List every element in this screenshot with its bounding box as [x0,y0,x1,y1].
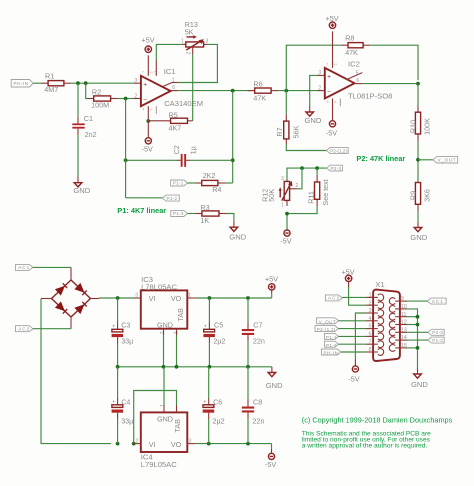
pin stub IC3 GND [163,329,165,335]
svg-text:4M7: 4M7 [44,85,58,94]
pin stub IC3 VI [133,297,141,299]
svg-text:6: 6 [369,332,372,338]
svg-text:100M: 100M [91,101,109,110]
svg-text:PH-IN: PH-IN [14,81,29,86]
svg-text:R1: R1 [45,72,54,81]
svg-text:PH-IN: PH-IN [324,351,339,356]
X1 pin 4 [366,316,384,324]
IC1 V- pin column [147,106,149,121]
svg-text:-5V: -5V [265,460,276,469]
wire inverting feedback column [125,99,127,198]
wire C1 column [77,83,79,117]
ground under R3 [229,227,246,241]
IC4 TAB bracket to VI rail [134,391,177,444]
svg-text:V_OUT: V_OUT [438,158,456,163]
wire IC2 output to R10 column [362,83,418,85]
svg-text:GND: GND [157,320,173,329]
wire R13 pin3 feedback to IC1 pin1 [178,44,217,82]
flag PH-IN [11,80,33,88]
svg-text:P2: 47K linear: P2: 47K linear [356,154,405,163]
flag PH-IN (X1) [321,349,341,356]
svg-text:−: − [327,89,331,96]
X1 pin 5 [366,324,384,332]
svg-text:R3: R3 [200,203,209,212]
IC2 pin1 stub bottom [339,99,341,107]
IC2 pin5 stub on hypotenuse [347,75,357,79]
wire X1 pin10 gnd bus [407,309,418,369]
wire AC2 to bridge bottom [33,328,71,330]
svg-text:5: 5 [356,70,359,76]
svg-text:IC2: IC2 [348,60,360,69]
wire R4 to feedback column [225,182,233,184]
svg-text:R2: R2 [92,87,101,96]
flag P1-1 [171,180,188,186]
svg-text:VI: VI [149,294,156,303]
pin stub IC4 VO [187,443,195,445]
node C4 bottom [116,442,120,446]
svg-text:1: 1 [188,292,191,298]
svg-text:-5V: -5V [280,237,291,246]
svg-text:33µ: 33µ [121,336,133,345]
svg-text:14: 14 [401,335,407,341]
X1 pin 11 [389,312,407,320]
svg-text:R11: R11 [307,191,316,204]
svg-text:P2-(1,2): P2-(1,2) [330,148,347,153]
supply -5V (rail) [265,444,276,470]
pin stub IC4 VI [134,443,141,445]
svg-text:2µ2: 2µ2 [213,336,225,345]
svg-text:P1-3: P1-3 [173,211,184,216]
svg-text:AC2: AC2 [328,296,339,301]
svg-text:33µ: 33µ [121,416,133,425]
svg-text:-5V: -5V [348,374,359,383]
wire node B down to R2 [86,83,87,98]
svg-text:v+: v+ [334,63,338,67]
svg-text:P1-1: P1-1 [326,335,337,340]
svg-text:V_OUT: V_OUT [319,320,336,325]
regulator IC3 L78L05AC [135,275,191,334]
X1 pin 14 [389,335,407,343]
ground under R9 [410,228,427,243]
svg-text:C1: C1 [84,114,93,123]
wire C2 row [126,159,177,161]
capacitor C3 33u [112,298,134,367]
svg-text:P1-1: P1-1 [173,181,184,186]
ground under X1 [411,369,428,390]
wire P2-(1,2) to X1 pin5 [339,328,367,330]
svg-text:v-: v- [334,100,337,104]
svg-text:3: 3 [135,292,138,298]
op-amp IC2 TL081P-SO8 [318,60,392,101]
supply -5V (X1) [348,366,359,384]
resistor R9 3K6 [409,181,432,211]
wire P1-1 to X1 pin6 [339,335,367,337]
supply +5V (X1) [342,267,355,281]
svg-text:9: 9 [401,296,404,302]
X1 pin 10 [389,304,407,312]
pin stub IC2 pin3 [317,74,325,76]
svg-text:5K: 5K [185,27,194,36]
flag AC1 [16,264,33,270]
svg-text:+5V: +5V [342,267,355,276]
node dot C2 left [124,158,128,162]
wire R10 to V OUT node [417,141,419,181]
flag P1-2 [162,195,179,201]
svg-text:3K6: 3K6 [423,189,432,202]
svg-text:P1-2: P1-2 [167,196,178,201]
svg-text:VI: VI [149,440,156,449]
wire X1 pin13 to P2-3 [407,331,428,333]
node dot bracket/VI [132,442,136,446]
IC2 V- pin column [332,99,334,121]
svg-text:GND: GND [73,186,90,195]
IC2 output pin6 [355,83,363,85]
wire P1-2 to X1 pin7 [339,343,367,345]
connector X1 body [373,280,400,361]
wire feedback column down [232,91,234,183]
node C3 top [116,296,120,300]
wire R2 to IC1 pin2 [118,98,134,100]
svg-text:1: 1 [369,293,372,299]
capacitor C8 22n [242,367,265,444]
supply +5V (IC1) [142,36,155,53]
wire R1 to node A [71,82,133,84]
flag P1-2 (X1) [325,341,339,348]
svg-text:TAB: TAB [176,308,185,322]
svg-text:R10: R10 [409,120,418,133]
svg-text:R7: R7 [275,127,284,136]
flag P1-1 (X1) [325,333,339,340]
svg-text:AC1: AC1 [18,265,29,270]
svg-text:GND: GND [410,233,427,242]
X1 pin 9 [389,296,407,304]
svg-text:12: 12 [401,320,407,326]
wire R9 to GND [417,211,419,222]
flag P1-3 [171,210,188,216]
wire R13 pin1 to IC1 pin5 [156,44,182,60]
svg-text:+5V: +5V [326,14,339,23]
svg-text:50K: 50K [267,189,276,202]
svg-text:GND: GND [157,415,173,424]
op-amp IC1 CA3140EM [135,67,204,108]
capacitor C1 2n2 [72,114,96,139]
svg-text:5: 5 [155,71,157,75]
pin stub IC3 TAB [176,329,178,335]
wire output row to IC2 [178,90,254,92]
svg-text:7: 7 [369,339,372,345]
svg-text:GND: GND [305,116,322,125]
wire V- to -5V [147,121,149,138]
trim pot R12 50K [261,176,299,208]
IC1 pin5 stub bottom [155,106,157,114]
wire R13 wiper pin2 down to R5 [192,55,194,121]
IC1 output pin6 [171,90,179,92]
wire V OUT to X1 pin4 [339,320,367,322]
svg-text:+5V: +5V [142,36,155,45]
svg-text:P1-3: P1-3 [432,338,443,343]
svg-text:+: + [112,399,115,404]
node dot bottom rail [285,212,289,216]
pin stub IC1 pin2 [133,98,141,100]
svg-text:7: 7 [326,63,328,67]
node output IC2 [416,82,420,86]
svg-text:VO: VO [171,440,182,449]
bridge rectifier B1 [41,267,99,328]
svg-text:P1: 4K7 linear: P1: 4K7 linear [117,206,166,215]
wire AC1 to bridge top [33,266,71,268]
resistor R4 2K2 [188,171,226,194]
wire R3 to GND [226,214,234,222]
flag AC2 (X1) [325,295,342,301]
svg-text:+: + [143,81,147,88]
svg-text:v-: v- [150,108,153,112]
ground under C1 [73,183,90,195]
svg-text:P1-2: P1-2 [326,343,337,348]
wire AC2 to X1 pin1 [342,296,366,298]
supply -5V (IC2) [326,121,337,138]
capacitor C5 2u2 [203,298,225,367]
wire IC3 GND/TAB to gnd rail [163,335,165,367]
wire C6 column from gnd rail [208,367,210,399]
svg-text:X1: X1 [375,280,384,289]
X1 pin 8 [366,347,384,355]
node dot feedback tap on pin2 wire [124,97,128,101]
svg-text:+: + [112,324,115,329]
capacitor C6 2u2 [203,398,225,444]
X1 pin 7 [366,339,384,347]
node inverting input IC2 [284,89,288,93]
node V OUT [416,158,420,162]
svg-text:VO: VO [171,294,182,303]
svg-text:7: 7 [142,71,144,75]
svg-text:R5: R5 [169,110,178,119]
supply +5V (rail) [265,275,278,299]
svg-text:R9: R9 [409,191,418,200]
capacitor C7 22n [242,298,265,367]
supply +5V (IC2) [326,14,339,28]
svg-text:100K: 100K [423,118,432,135]
svg-text:2: 2 [135,93,138,99]
flag P2-(1,2) (X1) [315,326,339,333]
diode D-TL [55,286,65,296]
pin stub IC1 pin3 [133,82,141,84]
pin stub IC3 VO [187,297,195,299]
svg-text:8: 8 [369,347,372,353]
svg-text:1µ: 1µ [189,146,198,154]
svg-text:AC2: AC2 [18,327,29,332]
flag V OUT (X1) [317,318,339,325]
svg-text:22n: 22n [253,336,265,345]
svg-text:P2-3: P2-3 [331,166,342,171]
svg-text:See text: See text [321,179,330,205]
capacitor C2 1u [172,145,198,167]
svg-text:1K: 1K [200,216,209,225]
svg-text:1: 1 [160,404,166,407]
flag P2-3 [327,165,343,171]
diode D-BR [74,304,84,314]
IC1 pin1 stub on hypotenuse [163,83,173,87]
svg-text:TL081P-SO8: TL081P-SO8 [348,92,392,101]
svg-text:+: + [204,324,207,329]
ground rail (mid) [118,366,272,368]
wire R7 column top [285,91,287,115]
wire bridge minus to -rail [41,299,111,444]
wire R8 to output column [370,45,418,80]
wire VO rail to -5V [195,443,272,445]
wire feedback up to R8 row [286,45,341,90]
svg-text:C2: C2 [172,145,181,154]
svg-text:P2-(1,2): P2-(1,2) [317,327,336,332]
node B dot (R2 tap) [84,81,88,85]
regulator IC4 L79L05AC [136,404,192,469]
resistor R7 56K [275,114,301,144]
svg-text:4K7: 4K7 [169,123,182,132]
wire column to R10 [417,84,419,106]
svg-text:C8: C8 [253,398,262,407]
node C8 bottom [246,442,250,446]
svg-text:2: 2 [185,52,191,55]
svg-text:P2-3: P2-3 [432,330,443,335]
svg-text:−: − [143,97,147,104]
wire VO rail to +5V [195,297,272,299]
svg-text:CA3140EM: CA3140EM [164,99,203,108]
resistor R2 100M [87,87,118,109]
svg-text:+: + [203,399,206,404]
svg-text:10: 10 [401,304,407,310]
wire PH-IN to R1 [33,82,41,84]
wire pin15 to bus [407,347,418,349]
svg-text:4: 4 [143,108,145,112]
wire R12 wiper to top row [290,188,298,190]
svg-text:2n2: 2n2 [85,130,97,139]
flag AC1 (X1 right) [427,298,446,304]
wire P2-3 row [287,168,327,180]
X1 pin 2 [366,300,384,308]
node C6 bottom [207,442,211,446]
svg-text:GND: GND [266,381,283,390]
node dot V- junction [146,119,150,123]
node dots on ground rail [116,365,120,369]
node output/feedback [231,89,235,93]
svg-text:6: 6 [172,85,175,91]
svg-text:C5: C5 [214,321,223,330]
flag AC2 [16,326,33,332]
svg-text:+: + [327,74,331,81]
svg-text:TAB: TAB [173,419,182,433]
svg-text:a written approval of the auth: a written approval of the author is requ… [302,443,428,450]
svg-text:56K: 56K [292,125,301,138]
ground rail stub and symbol [271,367,273,373]
diode D-BL [55,301,65,311]
X1 pin 15 [389,343,407,351]
wire PH-IN to X1 pin8 [341,351,366,353]
wire bridge plus rail [99,297,133,299]
supply -5V (R12) [280,230,291,246]
svg-text:-5V: -5V [142,145,153,154]
resistor R1 4M7 [42,72,72,94]
svg-text:R4: R4 [212,185,221,194]
svg-text:1: 1 [181,39,184,45]
svg-text:v+: v+ [150,71,154,75]
wire C4 column from gnd rail [117,367,119,399]
svg-text:L79L05AC: L79L05AC [141,460,177,469]
svg-text:IC1: IC1 [164,67,176,76]
X1 pin 13 [389,327,407,335]
svg-text:2µ2: 2µ2 [213,416,225,425]
supply -5V (IC1) [142,138,153,154]
diode D-TR [74,283,84,293]
svg-text:47K: 47K [345,48,358,57]
svg-text:GND: GND [229,233,246,242]
wire pin11 to bus [407,316,418,318]
svg-text:R6: R6 [253,80,262,89]
svg-text:+5V: +5V [265,275,278,284]
wire +5V to X1 pin2 [348,282,350,287]
svg-text:4: 4 [369,316,372,322]
flag P2-(1,2) [326,148,348,154]
svg-text:3: 3 [369,308,372,314]
wire node to V OUT flag [418,159,433,161]
svg-text:R8: R8 [345,34,354,43]
resistor R3 1K [188,203,227,225]
svg-text:GND: GND [411,380,428,389]
wire C1 to GND [77,135,79,177]
svg-text:22n: 22n [253,416,265,425]
wire IC2 pin3 to GND [310,75,317,106]
wire X1 pin14 to P1-3 [407,339,428,341]
resistor R10 100K [409,105,432,141]
IC1 V+ pin column from +5V [147,55,149,76]
node dot C2 right [231,158,235,162]
wire IC4 GND pin up to rail [163,367,165,406]
wire pin12 to bus [407,324,418,326]
trim pot R13 5K [181,20,209,54]
svg-text:4: 4 [327,100,329,104]
svg-text:11: 11 [401,312,407,318]
pin stub IC1 pin5 top [155,61,157,76]
wire R7 to P2-(1,2) flag [286,144,326,151]
flag P2-3 (X1 right) [428,329,444,335]
pin stub IC2 pin2 [317,90,325,92]
svg-text:(c) Copyright 1999-2018 Damien: (c) Copyright 1999-2018 Damien Douxchamp… [302,416,453,425]
node A dot (C1 tap) [76,81,80,85]
X1 pin 1 [366,293,384,301]
svg-text:L78L05AC: L78L05AC [141,282,177,291]
svg-text:3: 3 [135,78,138,84]
node C5 top [208,296,212,300]
node C7 top [246,296,250,300]
svg-text:3: 3 [281,176,284,182]
X1 pin 3 [366,308,384,316]
svg-text:13: 13 [401,327,407,333]
svg-text:-5V: -5V [326,129,337,138]
svg-text:15: 15 [401,343,407,349]
node dots on P2-3 row [300,166,304,170]
flag P1-3 (X1 right) [428,337,444,343]
svg-text:6: 6 [356,78,359,84]
X1 pin 12 [389,320,407,328]
resistor R11 See text [307,168,330,206]
wire to P1-2 [126,197,163,199]
svg-text:2: 2 [369,300,372,306]
svg-text:1: 1 [172,77,175,83]
svg-text:C3: C3 [121,321,130,330]
svg-text:3: 3 [206,39,209,45]
wire R6 to IC2 pin2 [278,90,317,92]
capacitor C4 33u [112,398,134,444]
svg-text:47K: 47K [253,94,266,103]
wire X1 pin9 to AC1 [407,300,427,302]
